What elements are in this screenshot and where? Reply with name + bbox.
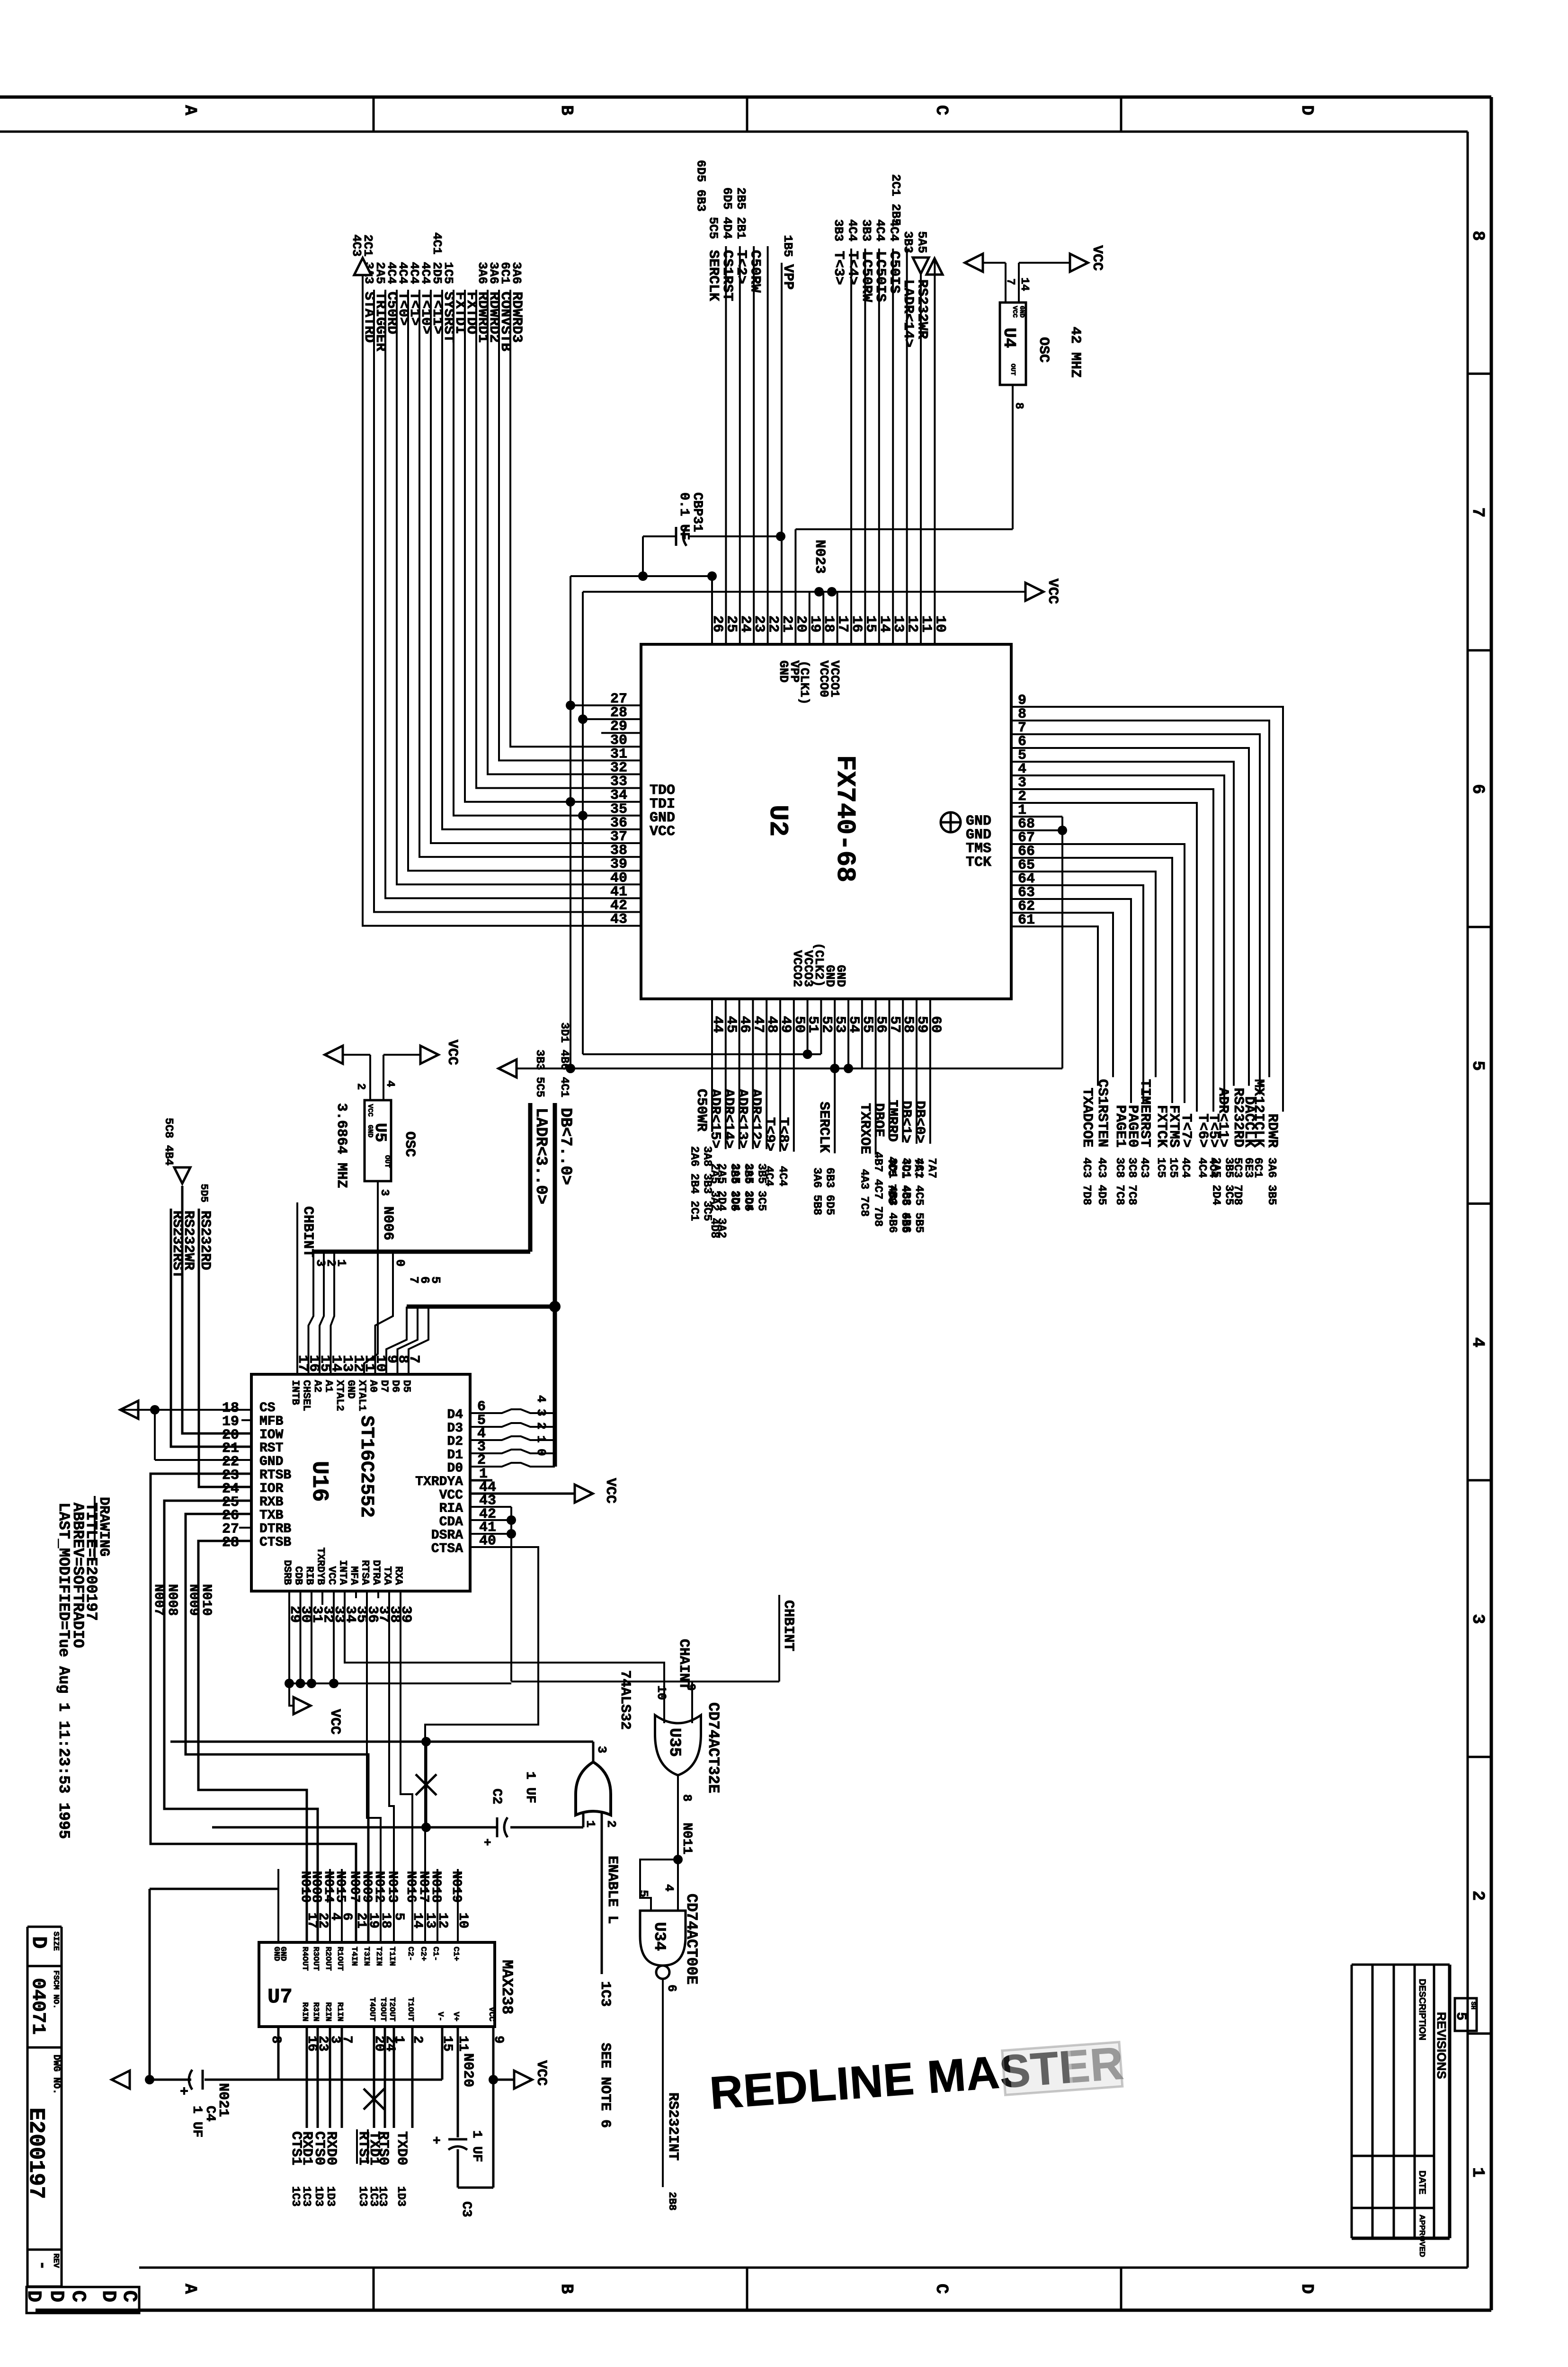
svg-text:1D3: 1D3 bbox=[324, 2186, 337, 2207]
svg-text:1C5: 1C5 bbox=[1154, 1157, 1167, 1178]
svg-text:4C4: 4C4 bbox=[1195, 1157, 1208, 1178]
svg-text:2C1 2B5: 2C1 2B5 bbox=[889, 174, 903, 226]
svg-text:4: 4 bbox=[662, 1884, 676, 1892]
svg-text:T2IN: T2IN bbox=[374, 1947, 383, 1966]
svg-text:DB<0>: DB<0> bbox=[911, 1101, 927, 1143]
svg-text:R4IN: R4IN bbox=[300, 2002, 309, 2021]
svg-text:INTB: INTB bbox=[289, 1380, 301, 1405]
svg-text:U2: U2 bbox=[763, 805, 793, 836]
svg-text:C50IS: C50IS bbox=[886, 251, 902, 294]
svg-text:C1+: C1+ bbox=[451, 1947, 460, 1961]
svg-text:DSRA: DSRA bbox=[431, 1528, 463, 1543]
svg-text:A1: A1 bbox=[323, 1380, 335, 1392]
svg-text:VPP: VPP bbox=[780, 264, 796, 290]
svg-text:C: C bbox=[118, 2290, 141, 2302]
svg-text:D1: D1 bbox=[447, 1448, 463, 1462]
svg-text:C2-: C2- bbox=[406, 1947, 415, 1961]
svg-text:SERCLK: SERCLK bbox=[816, 1102, 832, 1153]
svg-text:C2+: C2+ bbox=[419, 1947, 428, 1961]
svg-text:RS232RD: RS232RD bbox=[197, 1210, 213, 1270]
svg-text:N012: N012 bbox=[372, 1871, 386, 1903]
svg-text:FX740-68: FX740-68 bbox=[830, 755, 860, 882]
svg-text:B: B bbox=[557, 105, 576, 116]
svg-text:D6: D6 bbox=[390, 1380, 401, 1392]
svg-text:D7: D7 bbox=[378, 1380, 390, 1392]
svg-text:CS: CS bbox=[259, 1401, 276, 1415]
svg-text:2C1: 2C1 bbox=[361, 234, 375, 257]
svg-text:1 UF: 1 UF bbox=[523, 1771, 537, 1803]
svg-text:1C3: 1C3 bbox=[376, 2186, 389, 2207]
svg-text:1C3: 1C3 bbox=[597, 1981, 613, 2007]
svg-text:A: A bbox=[180, 2284, 200, 2294]
svg-text:T4IN: T4IN bbox=[349, 1947, 358, 1966]
svg-text:1C3: 1C3 bbox=[356, 2186, 369, 2207]
svg-text:2A5 2D4: 2A5 2D4 bbox=[742, 1163, 755, 1211]
svg-text:2: 2 bbox=[534, 1422, 548, 1430]
svg-text:4C4: 4C4 bbox=[845, 219, 859, 241]
svg-text:N016: N016 bbox=[403, 1871, 418, 1903]
svg-text:T4OUT: T4OUT bbox=[367, 1997, 376, 2021]
svg-text:T1OUT: T1OUT bbox=[406, 1997, 415, 2021]
svg-text:3B5 3C5: 3B5 3C5 bbox=[1222, 1157, 1235, 1205]
svg-text:IOR: IOR bbox=[259, 1481, 284, 1496]
svg-text:DESCRIPTION: DESCRIPTION bbox=[1417, 1979, 1427, 2040]
svg-text:6: 6 bbox=[1468, 784, 1488, 794]
svg-text:C50RW: C50RW bbox=[747, 250, 763, 293]
svg-text:T<4>: T<4> bbox=[844, 251, 860, 285]
svg-text:CHBINT: CHBINT bbox=[780, 1600, 796, 1651]
svg-text:D5: D5 bbox=[401, 1380, 412, 1392]
svg-text:2B5 2B1: 2B5 2B1 bbox=[734, 187, 748, 239]
svg-text:SH: SH bbox=[1469, 2002, 1477, 2010]
svg-text:42 MHZ: 42 MHZ bbox=[1067, 327, 1083, 378]
svg-text:TXRDYB: TXRDYB bbox=[315, 1548, 327, 1585]
svg-text:U5: U5 bbox=[371, 1123, 389, 1142]
svg-text:2: 2 bbox=[354, 1083, 367, 1090]
svg-text:D3: D3 bbox=[447, 1421, 463, 1436]
svg-text:8: 8 bbox=[268, 2036, 283, 2044]
svg-text:TXA: TXA bbox=[382, 1566, 393, 1585]
svg-text:4C1 4C5 5B5: 4C1 4C5 5B5 bbox=[912, 1158, 925, 1233]
svg-text:8: 8 bbox=[680, 1794, 694, 1802]
svg-text:VCC: VCC bbox=[327, 1709, 343, 1735]
svg-text:TXD0: TXD0 bbox=[393, 2131, 410, 2165]
svg-text:RIA: RIA bbox=[439, 1502, 463, 1516]
svg-text:1: 1 bbox=[583, 1820, 597, 1828]
svg-text:4C3 7D8: 4C3 7D8 bbox=[1080, 1157, 1093, 1205]
svg-text:U7: U7 bbox=[267, 1985, 293, 2009]
svg-text:FXTCK: FXTCK bbox=[1153, 1105, 1169, 1148]
svg-text:N011: N011 bbox=[679, 1823, 694, 1854]
svg-text:7: 7 bbox=[1468, 507, 1488, 518]
svg-text:D: D bbox=[27, 1936, 50, 1949]
svg-text:1D3: 1D3 bbox=[394, 2186, 407, 2207]
svg-text:4C3 4D5: 4C3 4D5 bbox=[1095, 1157, 1108, 1205]
svg-text:VCC: VCC bbox=[366, 1104, 374, 1117]
svg-text:N009: N009 bbox=[186, 1584, 201, 1616]
svg-text:SIZE: SIZE bbox=[51, 1931, 60, 1951]
svg-text:2: 2 bbox=[604, 1820, 618, 1828]
svg-text:(CLK1): (CLK1) bbox=[797, 660, 811, 705]
svg-text:3A6 5B8: 3A6 5B8 bbox=[811, 1167, 823, 1215]
svg-text:3: 3 bbox=[1468, 1614, 1488, 1624]
svg-text:CHSEL: CHSEL bbox=[301, 1380, 312, 1411]
svg-text:7A7: 7A7 bbox=[925, 1158, 938, 1178]
svg-text:12: 12 bbox=[435, 1913, 450, 1929]
svg-text:TXB: TXB bbox=[259, 1508, 284, 1523]
svg-text:CBP31: CBP31 bbox=[690, 492, 704, 532]
svg-text:2B8: 2B8 bbox=[666, 2192, 678, 2211]
svg-text:T<3>: T<3> bbox=[830, 251, 846, 285]
svg-text:3D1 4B3 4B6: 3D1 4B3 4B6 bbox=[886, 1158, 899, 1233]
svg-text:RIB: RIB bbox=[303, 1566, 315, 1585]
svg-text:5C5: 5C5 bbox=[706, 217, 720, 239]
svg-text:1C5: 1C5 bbox=[441, 262, 455, 284]
svg-text:XTAL2: XTAL2 bbox=[334, 1380, 346, 1411]
svg-text:INTA: INTA bbox=[337, 1560, 349, 1585]
svg-text:T1IN: T1IN bbox=[387, 1947, 396, 1966]
svg-text:V+: V+ bbox=[451, 2012, 460, 2021]
svg-text:5: 5 bbox=[428, 1276, 443, 1284]
svg-text:8: 8 bbox=[1012, 402, 1025, 409]
svg-text:+: + bbox=[433, 2134, 441, 2149]
svg-text:1: 1 bbox=[534, 1435, 548, 1443]
svg-text:TCK: TCK bbox=[966, 854, 991, 871]
svg-text:C2: C2 bbox=[489, 1789, 504, 1805]
svg-text:N008: N008 bbox=[165, 1584, 179, 1616]
svg-text:5C8 4B4: 5C8 4B4 bbox=[162, 1118, 175, 1166]
svg-text:RS232WR: RS232WR bbox=[914, 279, 930, 339]
svg-text:1C3: 1C3 bbox=[300, 2186, 312, 2207]
svg-text:2: 2 bbox=[1468, 1890, 1488, 1901]
svg-text:7: 7 bbox=[406, 1355, 422, 1363]
svg-text:4C4: 4C4 bbox=[762, 1166, 775, 1186]
svg-text:3D1 4B6 4C1: 3D1 4B6 4C1 bbox=[558, 1023, 570, 1097]
svg-text:N007: N007 bbox=[151, 1584, 166, 1616]
svg-text:U34: U34 bbox=[650, 1922, 668, 1951]
svg-text:LAST_MODIFIED=Tue Aug 1 11:23: LAST_MODIFIED=Tue Aug 1 11:23:53 1995 bbox=[55, 1503, 72, 1839]
svg-text:C: C bbox=[67, 2290, 89, 2302]
svg-text:R3IN: R3IN bbox=[311, 2002, 320, 2021]
svg-text:N023: N023 bbox=[811, 540, 828, 574]
svg-text:6B3 6D5: 6B3 6D5 bbox=[823, 1167, 836, 1215]
svg-text:RS232RD: RS232RD bbox=[1230, 1088, 1246, 1148]
svg-text:3B3: 3B3 bbox=[831, 219, 846, 241]
svg-text:3C8 7C8: 3C8 7C8 bbox=[1113, 1157, 1126, 1205]
svg-text:CDB: CDB bbox=[293, 1566, 304, 1585]
svg-text:6: 6 bbox=[665, 1984, 679, 1992]
svg-text:DATE: DATE bbox=[1417, 2171, 1427, 2194]
svg-text:RS232INT: RS232INT bbox=[665, 2092, 681, 2161]
svg-text:5: 5 bbox=[1452, 2012, 1469, 2020]
svg-text:R1OUT: R1OUT bbox=[335, 1947, 344, 1971]
svg-text:1C5: 1C5 bbox=[1167, 1157, 1179, 1178]
svg-text:3: 3 bbox=[534, 1409, 548, 1416]
svg-text:CDA: CDA bbox=[439, 1515, 463, 1530]
svg-text:LC50RW: LC50RW bbox=[858, 251, 874, 302]
svg-text:9: 9 bbox=[684, 1683, 698, 1691]
svg-text:CHBINT: CHBINT bbox=[300, 1206, 316, 1257]
svg-text:CD74ACT00E: CD74ACT00E bbox=[683, 1894, 700, 1984]
svg-text:T3IN: T3IN bbox=[362, 1947, 371, 1966]
svg-text:C: C bbox=[932, 2284, 951, 2294]
svg-text:10: 10 bbox=[455, 1913, 470, 1929]
svg-text:74ALS32: 74ALS32 bbox=[617, 1670, 633, 1730]
svg-text:10: 10 bbox=[654, 1685, 668, 1700]
svg-text:3B3: 3B3 bbox=[859, 219, 873, 241]
svg-text:4C4: 4C4 bbox=[776, 1166, 789, 1186]
svg-text:4C4: 4C4 bbox=[873, 219, 887, 241]
svg-text:1 UF: 1 UF bbox=[189, 2106, 204, 2137]
svg-text:4B7 4C7 7D8: 4B7 4C7 7D8 bbox=[871, 1152, 884, 1227]
svg-text:3D1 4B3 4B6: 3D1 4B3 4B6 bbox=[900, 1158, 912, 1233]
svg-text:N006: N006 bbox=[380, 1206, 396, 1240]
svg-text:VCC: VCC bbox=[444, 1040, 460, 1065]
svg-text:R1IN: R1IN bbox=[335, 2002, 344, 2021]
svg-text:3A6 3B5: 3A6 3B5 bbox=[1265, 1157, 1278, 1205]
svg-text:3A6: 3A6 bbox=[509, 262, 524, 284]
svg-text:DTRB: DTRB bbox=[259, 1522, 291, 1537]
svg-text:1B5: 1B5 bbox=[781, 235, 795, 257]
svg-text:1D3: 1D3 bbox=[312, 2186, 325, 2207]
svg-text:U4: U4 bbox=[999, 328, 1019, 348]
svg-text:RS232RST: RS232RST bbox=[169, 1210, 185, 1279]
svg-text:DSRB: DSRB bbox=[281, 1560, 293, 1585]
svg-text:N018: N018 bbox=[428, 1871, 443, 1903]
svg-text:2A5 2D4: 2A5 2D4 bbox=[729, 1163, 741, 1211]
svg-text:5A5: 5A5 bbox=[915, 231, 929, 253]
svg-text:+: + bbox=[180, 2084, 188, 2100]
svg-text:PAGE1: PAGE1 bbox=[1112, 1105, 1128, 1148]
svg-text:N020: N020 bbox=[460, 2053, 476, 2087]
svg-text:D: D bbox=[45, 2290, 68, 2302]
svg-text:0: 0 bbox=[534, 1449, 548, 1456]
svg-text:FSCM NO.: FSCM NO. bbox=[51, 1970, 60, 2009]
svg-text:RXD0: RXD0 bbox=[323, 2131, 339, 2165]
svg-text:1: 1 bbox=[334, 1259, 348, 1267]
svg-text:14: 14 bbox=[1018, 277, 1031, 291]
svg-text:A0: A0 bbox=[367, 1380, 379, 1392]
svg-text:C4: C4 bbox=[203, 2106, 217, 2122]
svg-text:N013: N013 bbox=[385, 1871, 400, 1903]
svg-text:CTSB: CTSB bbox=[259, 1535, 291, 1550]
svg-text:2A6 2B4 2C1: 2A6 2B4 2C1 bbox=[688, 1146, 701, 1221]
svg-text:SEE NOTE 6: SEE NOTE 6 bbox=[597, 2043, 613, 2128]
svg-text:2A5 2D4 3A2: 2A5 2D4 3A2 bbox=[715, 1163, 728, 1238]
svg-text:R2IN: R2IN bbox=[323, 2002, 332, 2021]
svg-text:8: 8 bbox=[1468, 231, 1488, 241]
svg-text:T2OUT: T2OUT bbox=[387, 1997, 396, 2021]
svg-text:D2: D2 bbox=[447, 1434, 463, 1449]
svg-text:4A3 7C8: 4A3 7C8 bbox=[858, 1169, 871, 1217]
svg-text:E200197: E200197 bbox=[24, 2108, 48, 2199]
svg-text:GND: GND bbox=[345, 1380, 357, 1399]
svg-text:R3OUT: R3OUT bbox=[311, 1947, 320, 1971]
svg-text:3B3 5C5: 3B3 5C5 bbox=[533, 1050, 546, 1097]
svg-text:CTSA: CTSA bbox=[431, 1542, 463, 1557]
svg-text:OUT: OUT bbox=[383, 1155, 391, 1168]
svg-text:MAX238: MAX238 bbox=[498, 1960, 516, 2014]
svg-text:MFB: MFB bbox=[259, 1414, 284, 1429]
svg-text:OUT: OUT bbox=[1009, 364, 1016, 375]
svg-text:14: 14 bbox=[410, 1913, 425, 1929]
svg-text:VCC: VCC bbox=[1044, 578, 1060, 604]
svg-text:U35: U35 bbox=[665, 1728, 683, 1757]
svg-text:REVISIONS: REVISIONS bbox=[1434, 2012, 1449, 2079]
svg-text:0: 0 bbox=[393, 1259, 407, 1267]
svg-text:GND: GND bbox=[259, 1455, 283, 1469]
svg-text:T3OUT: T3OUT bbox=[378, 1997, 387, 2021]
svg-text:D: D bbox=[97, 2290, 120, 2302]
svg-text:CS1RSTEN: CS1RSTEN bbox=[1094, 1079, 1110, 1147]
svg-text:D: D bbox=[22, 2290, 45, 2302]
svg-text:T<6>: T<6> bbox=[1194, 1113, 1211, 1148]
svg-text:R4OUT: R4OUT bbox=[300, 1947, 309, 1971]
svg-text:ENABLE L: ENABLE L bbox=[604, 1856, 620, 1924]
svg-text:ST16C2552: ST16C2552 bbox=[356, 1415, 377, 1518]
svg-text:1 UF: 1 UF bbox=[469, 2130, 484, 2162]
svg-text:3: 3 bbox=[378, 1189, 391, 1196]
svg-text:GND: GND bbox=[1018, 306, 1025, 318]
svg-text:VCC: VCC bbox=[326, 1566, 338, 1585]
svg-text:RTS0: RTS0 bbox=[375, 2131, 391, 2165]
svg-text:5: 5 bbox=[1468, 1060, 1488, 1071]
svg-text:SERCLK: SERCLK bbox=[705, 250, 721, 301]
svg-text:7: 7 bbox=[1004, 278, 1016, 285]
svg-text:CS1RST: CS1RST bbox=[719, 250, 735, 301]
svg-text:5D5: 5D5 bbox=[198, 1183, 210, 1202]
svg-text:CHAINT: CHAINT bbox=[676, 1639, 692, 1690]
svg-text:RXB: RXB bbox=[259, 1495, 284, 1510]
svg-text:REV: REV bbox=[51, 2253, 60, 2268]
svg-text:3.6864 MHZ: 3.6864 MHZ bbox=[333, 1103, 349, 1188]
svg-text:VCC: VCC bbox=[602, 1478, 618, 1504]
svg-text:D0: D0 bbox=[447, 1461, 463, 1476]
svg-text:VCC: VCC bbox=[1089, 245, 1105, 271]
svg-text:D: D bbox=[1297, 2284, 1317, 2294]
svg-text:VCC: VCC bbox=[1011, 306, 1018, 318]
svg-text:MFA: MFA bbox=[348, 1566, 360, 1585]
svg-text:APPROVED: APPROVED bbox=[1418, 2215, 1426, 2257]
svg-text:GND: GND bbox=[278, 1947, 287, 1961]
svg-text:IOW: IOW bbox=[259, 1428, 284, 1442]
svg-text:U16: U16 bbox=[306, 1461, 332, 1502]
svg-text:VCC: VCC bbox=[650, 824, 675, 840]
svg-text:1: 1 bbox=[1468, 2167, 1488, 2178]
svg-text:T<2>: T<2> bbox=[733, 250, 749, 284]
svg-text:XTAL1: XTAL1 bbox=[356, 1380, 368, 1411]
svg-text:1C3: 1C3 bbox=[289, 2186, 302, 2207]
svg-text:4: 4 bbox=[1468, 1337, 1488, 1348]
svg-text:RDWRD3: RDWRD3 bbox=[508, 292, 525, 343]
svg-text:6D5 4D4: 6D5 4D4 bbox=[720, 187, 734, 239]
svg-text:4: 4 bbox=[383, 1080, 396, 1087]
svg-text:VCC: VCC bbox=[487, 2007, 496, 2021]
svg-text:5: 5 bbox=[636, 1890, 650, 1897]
svg-text:N010: N010 bbox=[199, 1584, 214, 1616]
svg-text:V-: V- bbox=[436, 2012, 445, 2021]
svg-text:R2OUT: R2OUT bbox=[323, 1947, 332, 1971]
svg-text:D: D bbox=[1297, 105, 1317, 116]
svg-text:T<8>: T<8> bbox=[775, 1117, 791, 1151]
svg-text:N015: N015 bbox=[333, 1871, 347, 1903]
svg-text:VCC: VCC bbox=[439, 1488, 463, 1503]
svg-text:TXRDYA: TXRDYA bbox=[415, 1475, 463, 1489]
svg-text:6D5 6B3: 6D5 6B3 bbox=[694, 160, 708, 212]
svg-text:6: 6 bbox=[339, 1913, 354, 1921]
svg-text:C1-: C1- bbox=[431, 1947, 440, 1961]
svg-text:04071: 04071 bbox=[27, 1978, 48, 2035]
svg-text:3: 3 bbox=[595, 1746, 609, 1753]
svg-text:DB<7..0>: DB<7..0> bbox=[556, 1108, 574, 1185]
svg-text:DTRA: DTRA bbox=[370, 1560, 382, 1585]
svg-text:4C3: 4C3 bbox=[1138, 1157, 1150, 1178]
svg-text:-: - bbox=[33, 2260, 51, 2270]
svg-text:28: 28 bbox=[222, 1535, 239, 1551]
svg-text:C3: C3 bbox=[459, 2201, 473, 2217]
svg-text:OSC: OSC bbox=[401, 1131, 418, 1157]
svg-text:LC50IS: LC50IS bbox=[872, 251, 888, 302]
svg-text:A2: A2 bbox=[312, 1380, 323, 1392]
svg-text:A: A bbox=[180, 105, 200, 116]
svg-text:GND: GND bbox=[834, 965, 848, 987]
svg-text:N019: N019 bbox=[449, 1871, 463, 1903]
svg-text:VCCO1: VCCO1 bbox=[828, 660, 842, 697]
svg-text:OSC: OSC bbox=[1035, 337, 1051, 363]
svg-text:3C8 7C8: 3C8 7C8 bbox=[1125, 1157, 1138, 1205]
svg-text:D4: D4 bbox=[447, 1408, 463, 1423]
svg-text:VCC: VCC bbox=[533, 2060, 549, 2086]
svg-text:LADR<3..0>: LADR<3..0> bbox=[532, 1108, 550, 1204]
svg-text:RTSA: RTSA bbox=[359, 1560, 371, 1585]
svg-text:RST: RST bbox=[259, 1441, 283, 1456]
svg-text:5: 5 bbox=[392, 1913, 406, 1921]
svg-text:LADR<14>: LADR<14> bbox=[900, 279, 916, 347]
svg-text:18: 18 bbox=[378, 1913, 393, 1929]
svg-text:C: C bbox=[932, 105, 951, 116]
svg-text:RTSB: RTSB bbox=[259, 1468, 291, 1483]
svg-text:TXADCOE: TXADCOE bbox=[1079, 1088, 1095, 1148]
svg-text:+: + bbox=[484, 1836, 491, 1850]
svg-text:4: 4 bbox=[534, 1395, 548, 1403]
svg-text:3B3: 3B3 bbox=[901, 231, 915, 253]
svg-text:0.1 UF: 0.1 UF bbox=[677, 492, 691, 540]
svg-text:B: B bbox=[557, 2284, 576, 2294]
svg-text:CD74ACT32E: CD74ACT32E bbox=[704, 1702, 722, 1793]
svg-text:RXA: RXA bbox=[392, 1566, 404, 1585]
svg-text:DWG NO.: DWG NO. bbox=[51, 2055, 62, 2094]
svg-text:4C4: 4C4 bbox=[1179, 1157, 1192, 1178]
